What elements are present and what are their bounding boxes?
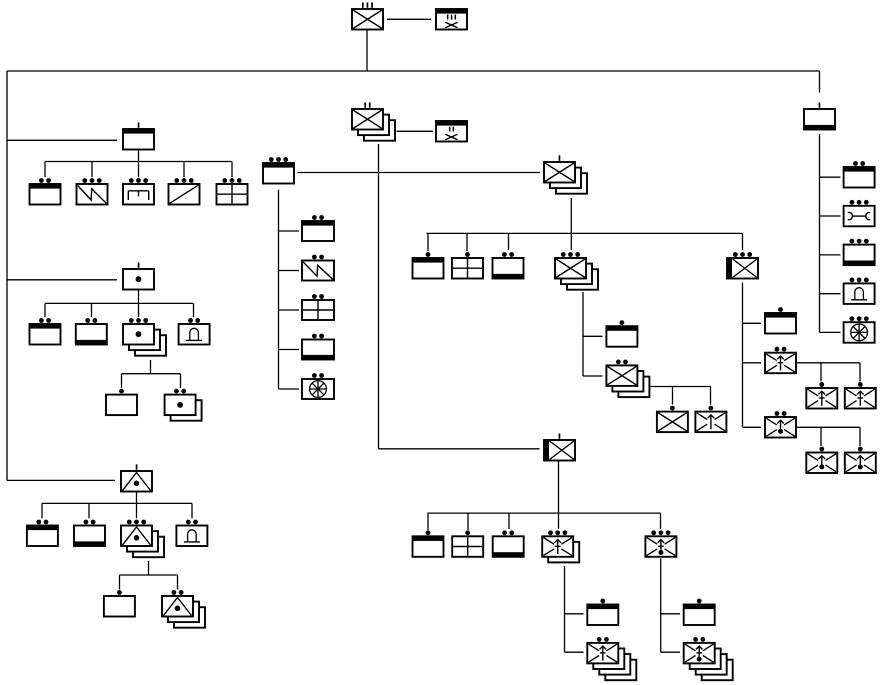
- unit F1c bridge platoon: [123, 178, 154, 204]
- unit H5 weapons company: [727, 252, 758, 278]
- unit F1 support company HQ: [123, 122, 154, 149]
- wire F3c rail: [120, 574, 178, 576]
- wire G column drop: [278, 190, 280, 389]
- wire N5 tick 1: [661, 613, 680, 615]
- wire branch1 riser 2: [91, 162, 93, 178]
- unit F2c1 gun squad: [106, 389, 137, 415]
- unit H infantry battalion stack: [544, 155, 587, 193]
- unit N2 battalion medical: [452, 530, 483, 556]
- wire N rail: [428, 512, 661, 514]
- unit G3 medical section: [302, 294, 334, 320]
- wire G to H stack: [298, 172, 541, 174]
- wire N5 tick 2: [661, 651, 680, 653]
- unit E battalion headquarters: [436, 121, 467, 142]
- unit F3a supply section: [27, 520, 58, 546]
- wire H5 tick 1: [743, 322, 762, 324]
- unit F2c gun platoons stack: [123, 318, 166, 356]
- wire branch2 riser 3: [138, 303, 140, 317]
- wire central riser 2: [466, 233, 468, 251]
- wire C tick 2: [820, 215, 841, 217]
- unit H5c mortar platoon: [765, 411, 796, 437]
- unit F1b signal platoon: [77, 178, 108, 204]
- unit F1e medical platoon: [217, 178, 248, 204]
- wire branch2 riser 1: [44, 303, 46, 317]
- unit H2 battalion medical: [452, 252, 483, 278]
- wire branch2 drop: [138, 290, 140, 304]
- unit B regiment headquarters: [436, 9, 467, 30]
- unit N5a company supply: [684, 599, 715, 625]
- unit F3c1 ADA squad: [104, 590, 135, 616]
- unit H5a company supply: [765, 307, 796, 333]
- wire left spine: [6, 71, 8, 480]
- unit F2a supply section: [30, 318, 61, 344]
- wire F3c drop: [148, 561, 150, 575]
- wire D to E: [397, 130, 434, 132]
- unit F3c ADA platoons stack: [121, 520, 164, 558]
- wire right spine drop: [819, 71, 821, 93]
- wire H4b riser 1: [672, 387, 674, 405]
- unit G trains HQ company: [263, 157, 294, 183]
- wire root drop: [366, 30, 368, 71]
- wire H drop: [570, 198, 572, 233]
- wire branch1 riser 1: [44, 162, 46, 178]
- wire C drop: [819, 134, 821, 332]
- unit H4a company supply: [606, 320, 637, 346]
- wire F2c riser 1: [121, 374, 123, 388]
- wire central riser 3: [508, 233, 510, 250]
- wire N riser 2: [467, 513, 469, 530]
- wire H5c riser 2: [859, 427, 861, 446]
- unit C trains company: [804, 102, 835, 129]
- wire C tick 3: [820, 254, 841, 256]
- unit H5c1 mortar squad: [806, 447, 837, 473]
- wire H5b riser 1: [820, 363, 822, 382]
- wire branch1 rail: [45, 161, 232, 163]
- wire H5c riser 1: [820, 427, 822, 446]
- unit A root infantry regiment: [352, 2, 383, 29]
- wire central riser 5: [742, 233, 744, 250]
- wire central rail: [427, 232, 743, 234]
- wire branch3 riser 4: [191, 503, 193, 518]
- wire H5b riser 2: [859, 363, 861, 382]
- wire G tick 2: [279, 270, 300, 272]
- wire G tick 4: [279, 349, 300, 351]
- wire branch1 riser 3: [138, 162, 140, 178]
- unit H5c2 mortar squad: [845, 447, 876, 473]
- unit H4b1 rifle squad: [657, 406, 688, 432]
- unit H4b2 assault squad: [695, 406, 726, 432]
- wire H4b rail: [649, 386, 711, 388]
- unit H1 battalion supply: [413, 252, 444, 278]
- unit F1a supply section: [30, 178, 61, 204]
- unit N3 battalion ammo: [493, 530, 524, 556]
- unit H4 rifle companies stack: [555, 252, 598, 290]
- unit N1 battalion supply: [413, 530, 444, 556]
- wire branch2 riser 2: [91, 303, 93, 317]
- unit G5 transport section: [302, 373, 334, 399]
- wire H4b riser 2: [710, 387, 712, 405]
- wire F2c drop: [150, 360, 152, 374]
- wire branch2 rail: [45, 302, 194, 304]
- unit C4 dome section: [844, 278, 875, 304]
- wire N5 drop: [660, 558, 662, 652]
- wire branch3 drop: [136, 492, 138, 504]
- unit F2d air defense section: [179, 318, 210, 344]
- wire H5c rail: [797, 426, 861, 428]
- wire branch1 riser 4: [183, 162, 185, 178]
- wire root to division HQ: [387, 18, 431, 20]
- wire H4 drop: [582, 292, 584, 376]
- unit H4b rifle platoons stack: [606, 360, 649, 398]
- unit G1 supply section: [302, 215, 334, 241]
- unit C3 ammo section: [844, 239, 875, 265]
- wire H4 tick 1: [583, 335, 603, 337]
- unit F3b ammo section: [74, 520, 105, 546]
- wire branch3 rail: [42, 502, 192, 504]
- wire branch2 riser 4: [193, 303, 195, 317]
- wire N feed: [379, 448, 540, 450]
- wire branch3 riser 2: [88, 503, 90, 518]
- unit H5b2 assault squad: [845, 382, 876, 408]
- wire branch1 riser 5: [231, 162, 233, 178]
- unit G2 signal section: [302, 255, 334, 281]
- wire N4 drop: [564, 566, 566, 652]
- wire branch1 feed: [7, 139, 117, 141]
- unit H5b1 assault squad: [806, 382, 837, 408]
- unit C5 transport section: [844, 316, 875, 342]
- unit G4 ammo section: [302, 334, 334, 360]
- unit H5b assault platoon: [765, 347, 796, 373]
- wire H5 drop: [742, 283, 744, 428]
- unit F3d dome section: [176, 520, 207, 546]
- unit N4a company supply: [587, 599, 618, 625]
- wire N4 tick 2: [565, 651, 584, 653]
- wire H5 tick 3: [743, 426, 762, 428]
- unit F3 air defense company HQ: [121, 464, 152, 491]
- wire D riser down: [378, 144, 380, 449]
- unit F2c2 gun sections stack: [165, 389, 202, 421]
- wire F2c rail: [122, 373, 181, 375]
- unit F3c2 ADA sections stack: [162, 590, 205, 628]
- wire N riser 5: [660, 513, 662, 529]
- wire N riser 3: [508, 513, 510, 529]
- wire branch3 feed: [7, 479, 115, 481]
- unit F2 gun company HQ: [123, 262, 154, 289]
- wire G tick 1: [279, 230, 300, 232]
- wire G tick 3: [279, 309, 300, 311]
- wire F3c riser 2: [177, 575, 179, 590]
- unit D infantry battalion stack: [352, 102, 395, 140]
- wire C tick 5: [820, 331, 841, 333]
- unit N4b assault platoons stack: [587, 637, 636, 680]
- wire branch2 feed: [7, 279, 117, 281]
- wire H5 tick 2: [743, 362, 762, 364]
- wire F3c riser 1: [119, 575, 121, 590]
- unit F1d transport platoon: [169, 178, 200, 204]
- unit F2b ammo section: [76, 318, 107, 344]
- wire H5b rail: [797, 362, 861, 364]
- wire central riser 4: [570, 233, 572, 250]
- wire H4 tick 2: [583, 375, 603, 377]
- wire branch3 riser 1: [41, 503, 43, 518]
- unit N5 mortar company: [645, 530, 676, 556]
- wire C tick 1: [820, 176, 841, 178]
- wire branch1 drop: [138, 150, 140, 162]
- wire N drop: [558, 461, 560, 513]
- wire branch3 riser 3: [136, 503, 138, 518]
- unit N5b mortar platoons stack: [684, 637, 733, 680]
- unit N4 assault companies stack: [542, 530, 579, 562]
- wire F2c riser 2: [180, 374, 182, 388]
- wire N4 tick 1: [565, 613, 584, 615]
- wire N riser 1: [427, 513, 429, 530]
- wire main spine top rail: [7, 70, 820, 72]
- wire central riser 1: [427, 233, 429, 251]
- unit N infantry battalion: [544, 433, 575, 460]
- unit C1 supply section: [844, 161, 875, 187]
- wire G tick 5: [279, 388, 300, 390]
- wire N riser 4: [558, 513, 560, 529]
- wire C tick 4: [820, 293, 841, 295]
- unit H3 battalion ammo: [493, 252, 524, 278]
- unit C2 maintenance section: [844, 200, 875, 226]
